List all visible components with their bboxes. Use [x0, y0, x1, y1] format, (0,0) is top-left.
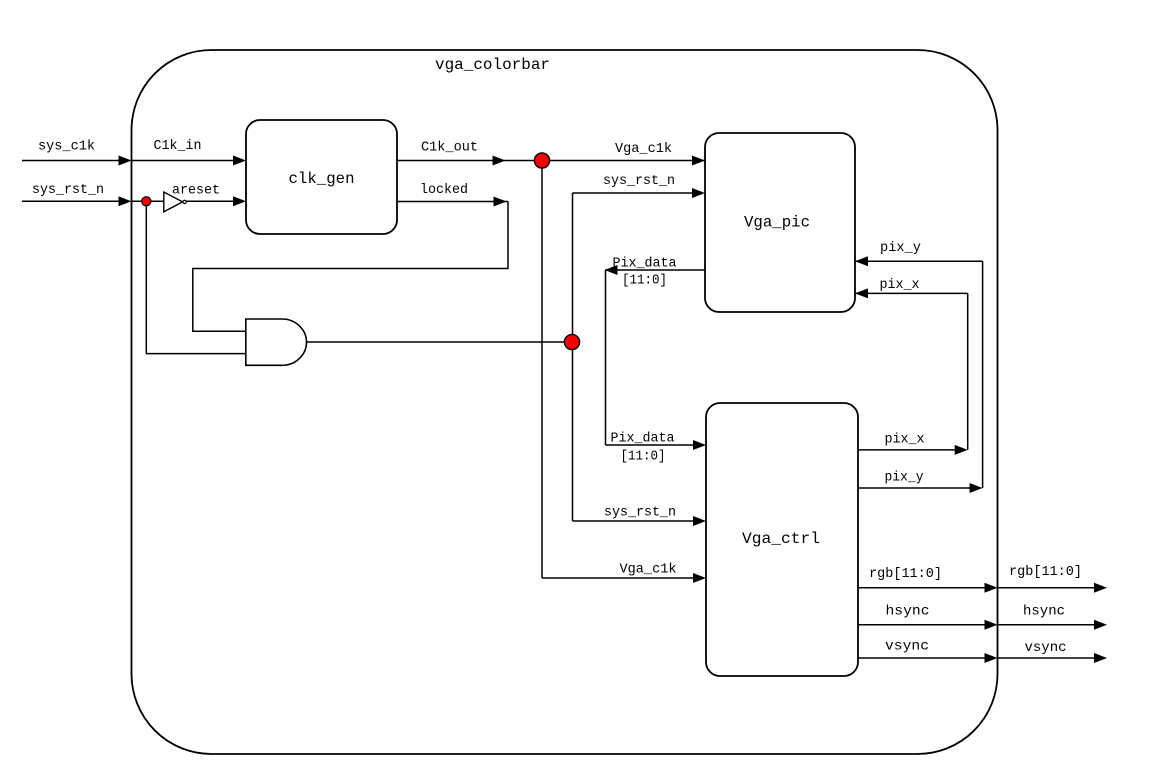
outer module boundary vga_colorbar: [132, 50, 998, 754]
wire sys_rst_n to Vga_pic: [573, 192, 694, 194]
svg-text:vga_colorbar: vga_colorbar: [435, 56, 550, 74]
svg-text:hsync: hsync: [886, 604, 930, 620]
wire AND output: [306, 341, 572, 343]
arrow pix_y corner: [970, 483, 983, 493]
wire pix_x into Vga_pic: [856, 292, 968, 294]
wire C1k_out / Vga_c1k to Vga_pic: [397, 160, 705, 162]
svg-text:clk_gen: clk_gen: [289, 170, 355, 188]
arrow Pix_data left: [605, 265, 618, 275]
wire vsync inside: [858, 657, 986, 659]
junction node sys_rst_n (red dot): [142, 197, 151, 206]
arrow Vga_c1k into Vga_ctrl: [693, 573, 706, 583]
svg-text:Vga_ctrl: Vga_ctrl: [742, 530, 820, 548]
wire sys_rst_n to AND gate lower input: [146, 201, 246, 353]
wire locked feedback to AND gate: [193, 202, 508, 332]
wire vsync outside: [998, 657, 1096, 659]
wire pix_y vertical: [982, 261, 984, 488]
junction node Vga_c1k (red dot): [534, 153, 549, 168]
wire boundary to inverter: [132, 200, 164, 202]
arrow pix_y into Vga_pic: [855, 256, 868, 266]
arrow pix_x corner: [955, 445, 968, 455]
arrow rgb at boundary: [985, 583, 998, 593]
wire sys_rst_n input: [22, 200, 120, 202]
svg-text:rgb[11:0]: rgb[11:0]: [869, 566, 942, 582]
arrow sys_rst_n into Vga_ctrl: [693, 516, 706, 526]
junction node reset net (red dot): [564, 334, 579, 349]
svg-text:pix_y: pix_y: [885, 470, 924, 486]
wire Pix_data vertical: [605, 270, 607, 445]
block clk_gen: [246, 120, 397, 234]
svg-text:Vga_c1k: Vga_c1k: [615, 141, 672, 157]
svg-text:hsync: hsync: [1023, 604, 1065, 620]
arrow vsync at boundary: [985, 653, 998, 663]
wire Vga_c1k vertical: [541, 161, 543, 579]
arrow vsync output: [1094, 653, 1107, 663]
wire sys_rst_n to Vga_ctrl: [573, 520, 695, 522]
wire pix_y from Vga_ctrl: [858, 487, 970, 489]
wire hsync outside: [998, 624, 1096, 626]
svg-text:[11:0]: [11:0]: [622, 273, 667, 289]
arrow sys_clk into boundary: [119, 156, 132, 166]
inverter (areset buffer) triangle: [164, 192, 183, 212]
block Vga_pic: [705, 133, 855, 312]
svg-text:Pix_data: Pix_data: [613, 256, 677, 272]
svg-text:C1k_out: C1k_out: [421, 140, 478, 156]
arrow Vga_c1k into Vga_pic: [692, 156, 705, 166]
wire C1k_in: [132, 160, 235, 162]
wire rgb outside: [998, 587, 1096, 589]
wire sys_clk input: [22, 160, 120, 162]
AND gate U1: [246, 319, 307, 365]
wire locked: [397, 201, 508, 203]
wire areset: [187, 200, 235, 202]
arrow C1k_out mid: [493, 156, 506, 166]
arrow Pix_data into Vga_ctrl: [693, 440, 706, 450]
svg-text:[11:0]: [11:0]: [621, 449, 666, 465]
wire rgb inside: [858, 587, 986, 589]
wire pix_x from Vga_ctrl: [858, 449, 955, 451]
svg-text:locked: locked: [420, 182, 468, 198]
svg-text:Vga_pic: Vga_pic: [744, 214, 810, 232]
arrow hsync at boundary: [985, 620, 998, 630]
arrow sys_rst_n into boundary: [119, 196, 132, 206]
wire Vga_c1k to Vga_ctrl: [542, 577, 694, 579]
svg-text:sys_rst_n: sys_rst_n: [603, 173, 675, 189]
svg-text:pix_x: pix_x: [885, 432, 925, 448]
arrow C1k_in into clk_gen: [233, 156, 246, 166]
arrow locked corner: [494, 197, 507, 207]
wire Pix_data from Vga_pic: [606, 269, 706, 271]
wire Pix_data to Vga_ctrl: [606, 444, 695, 446]
svg-text:sys_c1k: sys_c1k: [38, 139, 95, 155]
wire hsync inside: [858, 624, 986, 626]
arrow rgb output: [1094, 583, 1107, 593]
svg-text:areset: areset: [172, 183, 220, 199]
svg-text:rgb[11:0]: rgb[11:0]: [1009, 564, 1082, 580]
svg-text:vsync: vsync: [1025, 640, 1067, 656]
svg-text:pix_y: pix_y: [880, 240, 921, 256]
wire pix_y into Vga_pic: [856, 260, 983, 262]
arrow hsync output: [1094, 620, 1107, 630]
arrow pix_x into Vga_pic: [855, 288, 868, 298]
arrow sys_rst_n into Vga_pic: [692, 188, 705, 198]
svg-text:sys_rst_n: sys_rst_n: [32, 182, 104, 198]
inverter bubble: [183, 200, 186, 203]
svg-text:vsync: vsync: [885, 639, 929, 655]
wire reset net vertical: [572, 193, 574, 521]
svg-text:sys_rst_n: sys_rst_n: [604, 505, 676, 521]
wire pix_x vertical: [967, 293, 969, 450]
svg-text:Pix_data: Pix_data: [611, 431, 675, 447]
svg-text:Vga_c1k: Vga_c1k: [620, 562, 677, 578]
block Vga_ctrl: [706, 403, 858, 676]
arrow areset into clk_gen: [233, 196, 246, 206]
svg-text:C1k_in: C1k_in: [154, 138, 202, 154]
svg-text:pix_x: pix_x: [880, 277, 920, 293]
